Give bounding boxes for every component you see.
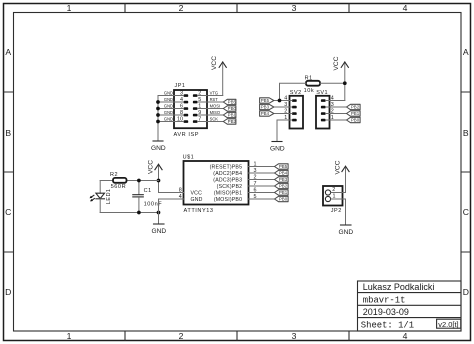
svg-text:2: 2 — [179, 3, 184, 13]
JP1 pin numbers left — [177, 91, 183, 123]
svg-text:1: 1 — [254, 161, 257, 167]
frame column labels bottom — [67, 331, 408, 341]
junction dot C1 bottom — [137, 211, 141, 215]
U1 right pin numbers — [254, 161, 257, 200]
svg-text:2019-03-09: 2019-03-09 — [363, 307, 409, 317]
svg-text:(SCK)PB2: (SCK)PB2 — [217, 184, 243, 190]
svg-text:SCK: SCK — [210, 116, 219, 121]
capacitor C1 — [138, 181, 140, 195]
SV2 pads — [292, 99, 297, 102]
SV1 wires to flags — [326, 107, 347, 120]
SV2 pin numbers — [284, 96, 287, 122]
svg-text:100nF: 100nF — [144, 201, 163, 207]
JP2 pin circles — [325, 190, 330, 195]
wire top rail — [100, 180, 158, 182]
JP1 pin numbers right — [198, 91, 201, 123]
svg-text:GND: GND — [164, 110, 173, 115]
net flag PB2 (JP1 SCK) — [223, 119, 236, 124]
connector SV2 — [290, 96, 304, 129]
svg-text:AVR ISP: AVR ISP — [174, 132, 200, 138]
ground GND (U1/C1) — [154, 223, 165, 225]
power VCC (JP2) — [334, 160, 349, 192]
svg-text:PB0: PB0 — [228, 106, 237, 111]
svg-text:Lukasz Podkalicki: Lukasz Podkalicki — [363, 282, 435, 292]
svg-text:PB2: PB2 — [351, 105, 360, 110]
frame bottom ticks — [125, 331, 349, 341]
wire JP1 pin2 to VCC — [207, 95, 223, 97]
svg-text:560R: 560R — [111, 184, 127, 190]
U1 left wires — [159, 193, 184, 200]
svg-text:10k: 10k — [304, 88, 315, 94]
frame row labels right — [463, 47, 469, 297]
svg-text:PB0: PB0 — [279, 197, 288, 202]
net flag PB1 (U1) — [275, 190, 289, 195]
resistor R2 — [113, 178, 127, 183]
svg-text:2: 2 — [254, 174, 257, 180]
svg-text:MOSI: MOSI — [210, 103, 220, 108]
junction dots JP1 ground bus — [156, 100, 160, 104]
net flag PB4 (SV2 pin2) — [260, 111, 274, 116]
svg-text:A: A — [5, 47, 11, 57]
svg-text:R1: R1 — [305, 76, 313, 82]
svg-text:PB2: PB2 — [228, 119, 237, 124]
junction dot GND rail — [157, 211, 161, 215]
svg-text:GND: GND — [164, 116, 173, 121]
junction dot C1 top — [137, 179, 141, 183]
JP2 wires — [331, 193, 346, 200]
svg-text:1: 1 — [67, 331, 72, 341]
wire SV2 pin1 to GND — [277, 120, 292, 142]
svg-text:(MISO)PB1: (MISO)PB1 — [214, 190, 242, 196]
U1 left pin numbers — [179, 187, 182, 200]
svg-text:PB5: PB5 — [279, 164, 288, 169]
svg-text:4: 4 — [403, 331, 408, 341]
net flag PB0 (U1) — [275, 196, 289, 201]
U1 internal pin labels — [210, 164, 243, 203]
frame right ticks — [461, 92, 471, 252]
wire SV1 pin4 to VCC — [326, 100, 345, 102]
net flag PB0 (JP1 MOSI) — [223, 106, 236, 111]
junction dot SV2 pin4 / R1 — [278, 99, 282, 103]
svg-text:GND: GND — [164, 97, 173, 102]
svg-text:PB5: PB5 — [261, 98, 270, 103]
U1 left labels VCC GND — [191, 190, 203, 203]
IC U1 — [184, 161, 249, 205]
svg-text:U$1: U$1 — [183, 155, 195, 161]
svg-text:D: D — [5, 287, 11, 297]
svg-text:GND: GND — [270, 145, 285, 152]
ground GND (JP2) — [341, 224, 352, 226]
svg-text:PB5: PB5 — [228, 100, 237, 105]
net flag PB2 (U1) — [275, 183, 289, 188]
svg-text:3: 3 — [292, 331, 297, 341]
svg-text:4: 4 — [403, 3, 408, 13]
svg-text:B: B — [5, 128, 11, 138]
svg-text:PB1: PB1 — [228, 113, 237, 118]
power VCC (SV1) — [333, 56, 348, 100]
net flag PB1 (SV1 pin2) — [347, 111, 361, 116]
svg-text:GND: GND — [164, 90, 173, 95]
JP1 pads left column — [184, 94, 189, 97]
net flag PB1 (JP1 MISO) — [223, 112, 236, 117]
svg-text:1: 1 — [67, 3, 72, 13]
ground GND (JP1) — [153, 140, 163, 142]
frame top ticks — [125, 4, 349, 13]
svg-text:JP1: JP1 — [175, 83, 186, 89]
JP1 left wires — [158, 96, 184, 122]
svg-text:LED1: LED1 — [106, 189, 112, 205]
junction dot R1/VCC — [343, 81, 347, 85]
title block — [358, 281, 462, 331]
svg-text:D: D — [463, 287, 469, 297]
svg-text:2: 2 — [179, 331, 184, 341]
svg-text:GND: GND — [338, 229, 353, 236]
svg-text:VCC: VCC — [191, 190, 203, 196]
svg-text:C1: C1 — [144, 188, 152, 194]
svg-text:PB4: PB4 — [279, 171, 288, 176]
svg-text:(ADC3)PB3: (ADC3)PB3 — [213, 177, 242, 183]
power VCC (JP1) — [211, 56, 226, 96]
frame column labels top — [67, 3, 408, 13]
SV2 wires — [274, 101, 292, 114]
net flag PB5 (U1) — [275, 164, 289, 169]
svg-text:7: 7 — [254, 181, 257, 187]
JP1 GND net labels — [164, 90, 173, 121]
power VCC (U1/C1) — [148, 160, 163, 193]
svg-text:PB1: PB1 — [351, 111, 360, 116]
svg-text:5: 5 — [254, 194, 257, 200]
net flag PB4 (U1) — [275, 170, 289, 175]
SV1 pin numbers — [331, 96, 334, 122]
svg-text:(RESET)PB5: (RESET)PB5 — [210, 164, 243, 170]
svg-text:R2: R2 — [110, 172, 118, 178]
wire bottom rail — [100, 212, 158, 214]
svg-text:SV1: SV1 — [316, 90, 328, 96]
svg-text:MISO: MISO — [210, 110, 220, 115]
svg-text:PB3: PB3 — [261, 105, 270, 110]
svg-text:VTG: VTG — [210, 90, 218, 95]
svg-text:JP2: JP2 — [331, 208, 342, 214]
svg-text:A: A — [463, 47, 469, 57]
svg-text:PB4: PB4 — [261, 111, 270, 116]
svg-text:mbavr-1t: mbavr-1t — [363, 296, 406, 306]
SV1 pads — [321, 99, 326, 102]
svg-text:VCC: VCC — [333, 56, 340, 70]
svg-text:C: C — [463, 207, 469, 217]
wire R1 left — [280, 83, 307, 100]
svg-text:(ADC2)PB4: (ADC2)PB4 — [213, 171, 242, 177]
connector JP2 — [323, 186, 343, 206]
svg-text:Sheet: 1/1: Sheet: 1/1 — [361, 321, 414, 331]
svg-text:VCC: VCC — [334, 160, 341, 174]
net flag PB5 (SV2 pin4) — [260, 98, 274, 103]
resistor R1 — [306, 81, 320, 86]
net flag PB2 (SV1 pin3) — [347, 104, 361, 109]
JP1 pads right column — [193, 94, 198, 97]
JP2 pin numbers — [332, 187, 335, 200]
svg-text:VCC: VCC — [148, 160, 155, 174]
net flag PB5 (JP1 RST) — [223, 99, 236, 104]
svg-text:v2.0[t]: v2.0[t] — [438, 320, 458, 329]
svg-text:ATTINY13: ATTINY13 — [184, 208, 214, 214]
frame row labels left — [5, 47, 11, 297]
JP1 right wires to flags — [207, 102, 223, 122]
frame left ticks — [4, 92, 14, 252]
net flag PB0 (SV1 pin1) — [347, 117, 361, 122]
JP1 pin function labels — [210, 90, 220, 121]
svg-text:PB1: PB1 — [279, 190, 288, 195]
connector JP1 — [174, 90, 207, 128]
wire U1 GND down — [158, 199, 160, 224]
junction dot VCC / top rail — [157, 179, 161, 183]
wire JP1 ground bus — [157, 96, 159, 142]
svg-text:SV2: SV2 — [290, 90, 302, 96]
svg-text:GND: GND — [151, 145, 166, 152]
svg-text:B: B — [463, 128, 469, 138]
svg-text:PB2: PB2 — [279, 184, 288, 189]
svg-text:6: 6 — [254, 187, 257, 193]
svg-text:(MOSI)PB0: (MOSI)PB0 — [214, 197, 242, 203]
ground GND (SV2) — [272, 141, 282, 143]
connector SV1 — [316, 96, 330, 129]
svg-text:C: C — [5, 207, 11, 217]
svg-text:PB0: PB0 — [351, 118, 360, 123]
LED1 emission arrows — [91, 195, 94, 197]
title block revision box — [437, 319, 461, 328]
net flag PB3 (U1) — [275, 177, 289, 182]
svg-text:GND: GND — [164, 103, 173, 108]
svg-text:3: 3 — [254, 168, 257, 174]
JP1 right wires inside box — [198, 96, 208, 122]
svg-text:VCC: VCC — [211, 56, 218, 70]
wire R1 right — [320, 82, 345, 84]
svg-text:GND: GND — [151, 228, 166, 235]
U1 right wires — [249, 167, 275, 200]
svg-text:GND: GND — [191, 197, 203, 203]
LED LED1 — [99, 181, 101, 194]
svg-text:3: 3 — [292, 3, 297, 13]
wire JP2 pin1 to GND — [345, 199, 347, 225]
svg-text:PB3: PB3 — [279, 177, 288, 182]
svg-text:RST: RST — [210, 97, 219, 102]
net flag PB3 (SV2 pin3) — [260, 104, 274, 109]
